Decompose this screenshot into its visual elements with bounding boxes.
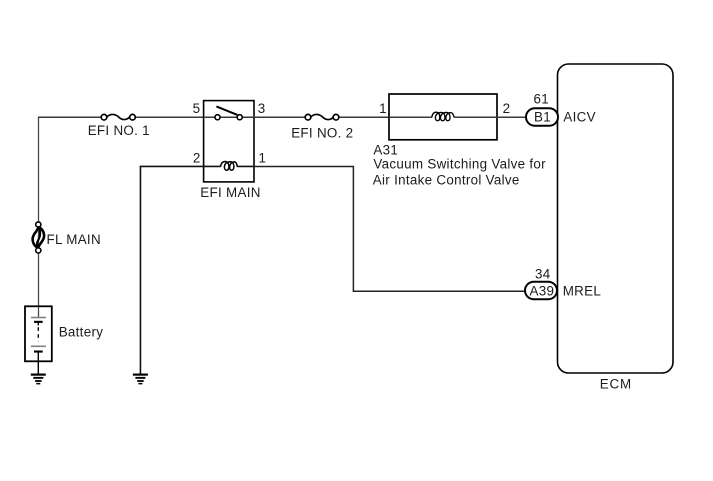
connector A39 — [525, 282, 557, 300]
svg-text:AICV: AICV — [563, 110, 595, 125]
svg-text:34: 34 — [535, 267, 551, 282]
svg-text:1: 1 — [259, 150, 267, 165]
VSV coil — [432, 112, 454, 121]
battery dashed middle — [37, 327, 39, 341]
relay coil — [221, 161, 238, 170]
svg-text:B1: B1 — [534, 110, 551, 125]
wire relay pin 1 to ECM MREL — [254, 166, 526, 291]
wire top horizontal B+ to fuse EFI NO.1 — [38, 116, 104, 118]
ground under relay — [133, 374, 148, 385]
svg-text:A39: A39 — [530, 283, 555, 298]
battery wire stub top — [37, 322, 39, 326]
svg-text:MREL: MREL — [563, 283, 601, 298]
svg-text:Air Intake Control Valve: Air Intake Control Valve — [373, 173, 520, 188]
wire VSV internal right — [454, 116, 497, 118]
battery plate long bottom — [31, 346, 46, 348]
ground under battery — [31, 374, 46, 385]
svg-text:Battery: Battery — [59, 325, 104, 340]
svg-text:5: 5 — [193, 101, 201, 116]
switch contact left — [215, 115, 220, 120]
fuse EFI NO. 2 — [305, 114, 339, 120]
ECM box — [558, 64, 674, 373]
svg-text:2: 2 — [193, 150, 201, 165]
svg-text:61: 61 — [534, 91, 550, 106]
battery plate long top — [31, 317, 46, 319]
svg-text:Vacuum Switching Valve for: Vacuum Switching Valve for — [373, 157, 546, 172]
svg-text:EFI MAIN: EFI MAIN — [200, 185, 260, 200]
battery plate short bottom — [34, 351, 43, 353]
svg-text:1: 1 — [379, 101, 387, 116]
svg-text:ECM: ECM — [600, 376, 632, 391]
wire fuse EFI NO.2 to VSV pin 1 — [339, 116, 389, 118]
wire relay switch row — [204, 116, 254, 118]
svg-text:EFI NO. 2: EFI NO. 2 — [291, 125, 353, 140]
svg-text:2: 2 — [503, 101, 511, 116]
switch arm — [216, 106, 237, 115]
wire VSV internal left — [389, 116, 432, 118]
wire relay pin 3 to fuse EFI NO.2 — [254, 116, 308, 118]
relay EFI MAIN box — [204, 101, 254, 182]
wire fuse EFI NO.1 to relay pin 5 — [135, 116, 203, 118]
svg-text:3: 3 — [258, 101, 266, 116]
svg-text:FL MAIN: FL MAIN — [47, 232, 101, 247]
VSV A31 box — [389, 94, 497, 140]
svg-text:A31: A31 — [373, 143, 398, 158]
battery wire stub bottom — [37, 352, 39, 375]
wire relay pin 2 to ground — [140, 166, 203, 374]
wire battery vertical — [38, 117, 40, 317]
fusible link FL MAIN — [33, 222, 44, 253]
battery plate short top — [34, 321, 43, 323]
wire relay coil row — [204, 165, 221, 167]
connector B1 — [526, 108, 558, 126]
battery box — [25, 306, 52, 361]
svg-text:EFI NO. 1: EFI NO. 1 — [88, 123, 150, 138]
switch contact right — [237, 115, 242, 120]
fuse EFI NO. 1 — [101, 114, 135, 120]
wire VSV pin 2 to ECM AICV — [497, 116, 527, 118]
